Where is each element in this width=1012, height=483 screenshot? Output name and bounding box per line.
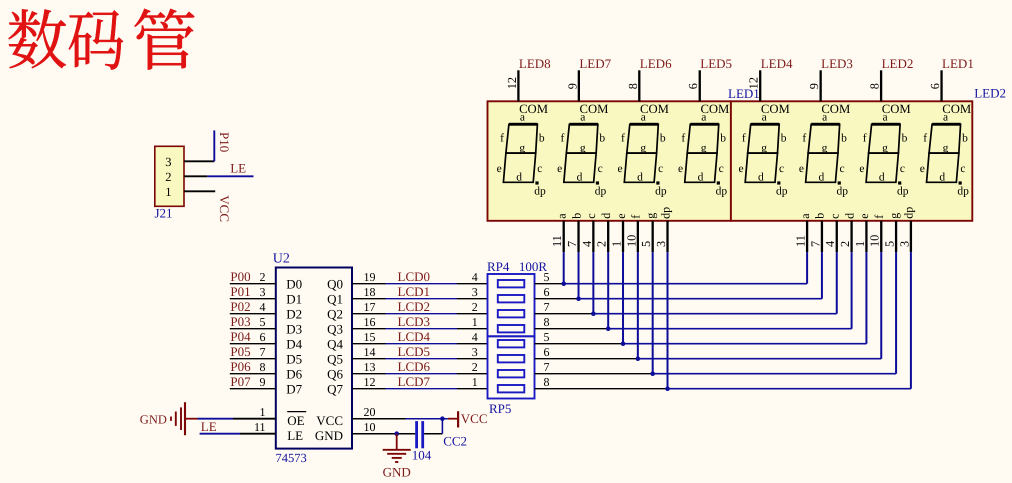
svg-text:Q4: Q4 (327, 337, 343, 352)
svg-text:GND: GND (383, 465, 411, 480)
svg-text:c: c (537, 163, 542, 175)
LED1 segment pin b stub (577, 221, 579, 252)
svg-text:c: c (960, 163, 965, 175)
LED2 segment pin a stub (806, 221, 808, 252)
svg-text:LED7: LED7 (579, 56, 611, 71)
svg-text:D5: D5 (286, 352, 302, 367)
svg-text:dp: dp (655, 186, 667, 198)
svg-text:11: 11 (794, 235, 808, 247)
svg-text:8: 8 (868, 83, 882, 89)
wire LCD5 net (352, 358, 386, 360)
wire P00 input (230, 283, 276, 285)
svg-text:8: 8 (260, 360, 266, 374)
svg-text:20: 20 (364, 405, 376, 419)
svg-text:Q7: Q7 (327, 382, 343, 397)
display digit 3 seven-segment glyph (618, 111, 667, 197)
junction dot row 8 (665, 386, 670, 391)
svg-text:3: 3 (260, 285, 266, 299)
svg-text:8: 8 (544, 315, 550, 329)
display digit 8 COM pin wire (940, 70, 942, 101)
svg-text:12: 12 (747, 77, 761, 89)
svg-text:a: a (641, 111, 646, 123)
wire right display segment 5 vertical (865, 252, 867, 344)
wire segment bus row 6 (535, 358, 638, 360)
resistor element R4 in RP4 (498, 325, 525, 332)
J21 pin 2 wire (184, 175, 207, 177)
svg-text:6: 6 (686, 83, 700, 89)
svg-text:LED8: LED8 (519, 56, 551, 71)
wire P07 input (230, 388, 276, 390)
wire P04 input (230, 343, 276, 345)
junction dot row 3 (591, 311, 596, 316)
svg-text:g: g (882, 143, 888, 155)
svg-text:LED5: LED5 (700, 56, 732, 71)
display digit 2 COM pin wire (578, 70, 580, 101)
VCC power symbol (448, 418, 457, 420)
junction dot GND node (394, 431, 399, 436)
svg-text:d: d (516, 172, 522, 184)
junction dot VCC node (440, 416, 445, 421)
svg-text:7: 7 (544, 360, 550, 374)
resistor element R2 in RP4 (498, 295, 525, 302)
svg-text:a: a (883, 111, 888, 123)
J21 pin 1 wire (184, 190, 215, 192)
svg-text:c: c (828, 213, 842, 218)
svg-text:a: a (520, 111, 525, 123)
wire right display segment 7 vertical (895, 252, 897, 374)
svg-text:c: c (719, 163, 724, 175)
LED1 segment pin d stub (607, 221, 609, 252)
svg-text:12: 12 (364, 375, 376, 389)
svg-text:GND: GND (140, 412, 167, 426)
svg-text:Q5: Q5 (327, 352, 343, 367)
svg-text:f: f (802, 132, 806, 144)
earth ground symbol below capacitor (396, 434, 398, 450)
svg-text:LED2: LED2 (882, 56, 914, 71)
wire segment bus row 4 (535, 328, 609, 330)
display digit 8 seven-segment glyph (920, 111, 969, 197)
svg-text:LE: LE (287, 428, 303, 443)
svg-text:e: e (557, 163, 562, 175)
junction dot row 2 (576, 296, 581, 301)
svg-text:b: b (720, 132, 726, 144)
svg-text:Q0: Q0 (327, 277, 343, 292)
wire U2 pin 20 to VCC (352, 418, 406, 420)
svg-text:dp: dp (897, 186, 909, 198)
svg-text:b: b (902, 132, 908, 144)
LED2 segment pin e stub (865, 221, 867, 252)
svg-text:Q2: Q2 (327, 307, 343, 322)
wire left display segment 6 vertical (637, 252, 639, 359)
wire left display segment 3 vertical (592, 252, 594, 314)
svg-text:6: 6 (260, 330, 266, 344)
svg-text:d: d (599, 213, 613, 219)
svg-text:U2: U2 (273, 252, 290, 267)
svg-text:P02: P02 (230, 299, 250, 314)
svg-text:P06: P06 (230, 359, 251, 374)
svg-text:Q3: Q3 (327, 322, 343, 337)
latch U2 body (276, 268, 352, 449)
svg-text:f: f (863, 132, 867, 144)
svg-text:b: b (841, 132, 847, 144)
wire right display segment 1 vertical (806, 252, 808, 284)
svg-text:5: 5 (544, 270, 550, 284)
resistor element R3 in RP4 (498, 310, 525, 317)
svg-text:2: 2 (472, 360, 478, 374)
display digit 1 seven-segment glyph (497, 111, 546, 197)
svg-text:LED1: LED1 (942, 56, 974, 71)
wire LE from J21 (207, 175, 253, 177)
display digit 6 seven-segment glyph (799, 111, 848, 197)
svg-text:7: 7 (260, 345, 266, 359)
LED2 segment pin g stub (895, 221, 897, 252)
svg-text:e: e (678, 163, 683, 175)
svg-text:2: 2 (165, 170, 171, 184)
svg-text:D0: D0 (286, 277, 302, 292)
svg-text:4: 4 (472, 270, 478, 284)
svg-text:OE: OE (287, 413, 304, 428)
svg-text:P05: P05 (230, 344, 250, 359)
svg-text:b: b (539, 132, 545, 144)
junction dot row 7 (650, 371, 655, 376)
svg-text:3: 3 (654, 241, 668, 247)
wire right display segment 8 vertical (910, 252, 912, 389)
svg-text:12: 12 (505, 77, 519, 89)
svg-text:g: g (701, 143, 707, 155)
svg-text:b: b (599, 132, 605, 144)
display digit 7 COM pin wire (880, 70, 882, 101)
svg-text:d: d (758, 172, 764, 184)
svg-text:7: 7 (808, 241, 822, 247)
svg-text:9: 9 (260, 375, 266, 389)
svg-text:7: 7 (565, 241, 579, 247)
J21 pin 3 wire (184, 160, 214, 162)
svg-text:1: 1 (260, 405, 266, 419)
svg-text:LE: LE (230, 160, 246, 175)
svg-text:7: 7 (544, 300, 550, 314)
svg-text:6: 6 (928, 83, 942, 89)
junction dot row 6 (636, 356, 641, 361)
svg-text:D3: D3 (286, 322, 302, 337)
svg-text:e: e (859, 163, 864, 175)
wire capacitor to VCC node (424, 433, 442, 435)
svg-text:f: f (561, 132, 565, 144)
wire GND to U2 pin 1 (186, 418, 198, 420)
svg-text:D2: D2 (286, 307, 302, 322)
svg-text:6: 6 (544, 285, 550, 299)
svg-text:P01: P01 (230, 284, 250, 299)
svg-text:d: d (939, 172, 945, 184)
svg-text:c: c (839, 163, 844, 175)
svg-text:dp: dp (658, 207, 672, 219)
LED2 segment pin c stub (836, 221, 838, 252)
wire LCD4 net (352, 343, 386, 345)
wire right display segment 4 vertical (851, 252, 853, 329)
svg-text:c: c (900, 163, 905, 175)
wire LCD1 net (352, 298, 386, 300)
svg-text:a: a (798, 213, 812, 219)
svg-text:f: f (742, 132, 746, 144)
svg-text:6: 6 (544, 345, 550, 359)
svg-text:d: d (577, 172, 583, 184)
svg-text:e: e (614, 213, 628, 218)
svg-text:Q1: Q1 (327, 292, 343, 307)
svg-text:f: f (872, 215, 886, 219)
svg-text:g: g (580, 143, 586, 155)
svg-text:c: c (598, 163, 603, 175)
wire right display segment 6 vertical (880, 252, 882, 359)
svg-text:dp: dp (902, 207, 916, 219)
LED1 segment pin c stub (592, 221, 594, 252)
svg-text:VCC: VCC (316, 413, 343, 428)
LED1 segment pin dp stub (666, 221, 668, 252)
svg-text:f: f (681, 132, 685, 144)
title text 数码管 (9, 9, 195, 70)
LED1 segment pin g stub (652, 221, 654, 252)
wire LCD6 net (352, 373, 386, 375)
wire P05 input (230, 358, 276, 360)
svg-text:1: 1 (472, 375, 478, 389)
svg-text:e: e (738, 163, 743, 175)
svg-text:c: c (658, 163, 663, 175)
svg-text:f: f (500, 132, 504, 144)
svg-text:LE: LE (201, 419, 217, 434)
svg-text:LED3: LED3 (821, 56, 853, 71)
display module LED2 body (731, 101, 972, 221)
svg-text:b: b (962, 132, 968, 144)
resistor element R1 in RP4 (498, 280, 525, 287)
display module LED1 body (488, 101, 731, 221)
wire segment bus row 3 (535, 313, 594, 315)
wire segment bus row 8 (535, 388, 668, 390)
connector J21 body (155, 146, 184, 206)
svg-text:a: a (701, 111, 706, 123)
svg-text:g: g (643, 213, 657, 219)
wire left display segment 1 vertical (563, 252, 565, 284)
svg-text:5: 5 (260, 315, 266, 329)
svg-text:d: d (842, 213, 856, 219)
svg-text:10: 10 (364, 420, 376, 434)
svg-text:104: 104 (412, 447, 432, 462)
svg-text:D6: D6 (286, 367, 302, 382)
svg-text:74573: 74573 (276, 451, 307, 465)
svg-text:P00: P00 (230, 269, 250, 284)
svg-text:dp: dp (534, 186, 546, 198)
display digit 4 COM pin wire (699, 70, 701, 101)
svg-text:3: 3 (472, 285, 478, 299)
wire P02 input (230, 313, 276, 315)
LED2 segment pin dp stub (910, 221, 912, 252)
svg-text:LCD0: LCD0 (398, 269, 431, 284)
svg-text:RP5: RP5 (489, 401, 511, 416)
svg-text:D1: D1 (286, 292, 302, 307)
svg-text:1: 1 (853, 241, 867, 247)
svg-text:1: 1 (472, 315, 478, 329)
display digit 5 COM pin wire (759, 70, 761, 101)
svg-text:b: b (660, 132, 666, 144)
svg-text:f: f (629, 215, 643, 219)
svg-text:e: e (497, 163, 502, 175)
wire segment bus row 7 (535, 373, 653, 375)
svg-text:Q6: Q6 (327, 367, 343, 382)
svg-text:a: a (943, 111, 948, 123)
svg-text:1: 1 (609, 241, 623, 247)
wire left display segment 4 vertical (607, 252, 609, 329)
wire right display segment 2 vertical (821, 252, 823, 299)
svg-text:2: 2 (595, 241, 609, 247)
svg-text:P10: P10 (217, 132, 232, 152)
svg-text:e: e (799, 163, 804, 175)
svg-text:17: 17 (364, 300, 376, 314)
svg-text:P03: P03 (230, 314, 250, 329)
resistor pack RP4 body (488, 274, 535, 336)
svg-text:10: 10 (868, 235, 882, 247)
svg-text:g: g (943, 143, 949, 155)
resistor element R8 in RP5 (498, 385, 525, 392)
svg-text:dp: dp (716, 186, 728, 198)
svg-text:VCC: VCC (461, 411, 488, 426)
svg-text:g: g (761, 143, 767, 155)
power ground symbol at U2 pin 1 (170, 417, 172, 421)
svg-text:1: 1 (165, 185, 171, 199)
wire P06 input (230, 373, 276, 375)
wire left display segment 8 vertical (667, 252, 669, 389)
svg-text:LED6: LED6 (640, 56, 672, 71)
svg-text:f: f (621, 132, 625, 144)
svg-text:4: 4 (472, 330, 478, 344)
svg-text:11: 11 (550, 235, 564, 247)
svg-text:RP4: RP4 (487, 259, 510, 274)
wire right display segment 3 vertical (836, 252, 838, 314)
wire LCD7 net (352, 388, 386, 390)
svg-text:a: a (762, 111, 767, 123)
svg-text:d: d (818, 172, 824, 184)
wire LE to U2 pin 11 (200, 433, 240, 435)
svg-text:f: f (923, 132, 927, 144)
svg-text:LCD1: LCD1 (398, 284, 431, 299)
svg-text:e: e (857, 213, 871, 218)
svg-text:c: c (779, 163, 784, 175)
svg-text:13: 13 (364, 360, 376, 374)
resistor element R6 in RP5 (498, 355, 525, 362)
svg-text:d: d (698, 172, 704, 184)
svg-text:LCD4: LCD4 (398, 329, 431, 344)
svg-text:LCD2: LCD2 (398, 299, 431, 314)
LED1 segment pin a stub (563, 221, 565, 252)
junction dot row 1 (561, 281, 566, 286)
svg-text:LED2: LED2 (974, 86, 1006, 101)
svg-text:3: 3 (472, 345, 478, 359)
wire segment bus row 5 (535, 343, 624, 345)
svg-text:3: 3 (897, 241, 911, 247)
svg-text:CC2: CC2 (443, 434, 467, 449)
svg-text:P07: P07 (230, 374, 251, 389)
svg-text:11: 11 (254, 420, 266, 434)
wire left display segment 2 vertical (578, 252, 580, 299)
svg-text:5: 5 (544, 330, 550, 344)
display digit 3 COM pin wire (638, 70, 640, 101)
wire U2 pin 10 to capacitor (352, 433, 415, 435)
svg-text:g: g (640, 143, 646, 155)
svg-text:D4: D4 (286, 337, 302, 352)
svg-text:GND: GND (315, 428, 343, 443)
svg-text:b: b (813, 213, 827, 219)
svg-text:9: 9 (565, 83, 579, 89)
wire left display segment 5 vertical (622, 252, 624, 344)
svg-text:c: c (584, 213, 598, 218)
display digit 6 COM pin wire (820, 70, 822, 101)
svg-text:LCD3: LCD3 (398, 314, 431, 329)
svg-text:g: g (519, 143, 525, 155)
svg-text:14: 14 (364, 345, 376, 359)
svg-text:5: 5 (882, 241, 896, 247)
capacitor CC2 plates (415, 421, 418, 448)
svg-text:9: 9 (807, 83, 821, 89)
svg-text:b: b (569, 213, 583, 219)
svg-text:d: d (637, 172, 643, 184)
svg-text:2: 2 (260, 270, 266, 284)
svg-text:19: 19 (364, 270, 376, 284)
LED2 segment pin b stub (821, 221, 823, 252)
LED1 segment pin e stub (622, 221, 624, 252)
svg-text:J21: J21 (155, 206, 173, 221)
wire LCD2 net (352, 313, 386, 315)
svg-text:5: 5 (639, 241, 653, 247)
display digit 1 COM pin wire (517, 70, 519, 101)
LED1 segment pin f stub (637, 221, 639, 252)
wire P01 input (230, 298, 276, 300)
svg-text:e: e (920, 163, 925, 175)
resistor element R7 in RP5 (498, 370, 525, 377)
svg-text:LCD6: LCD6 (398, 359, 431, 374)
svg-text:LED4: LED4 (761, 56, 793, 71)
svg-text:D7: D7 (286, 382, 302, 397)
svg-text:18: 18 (364, 285, 376, 299)
svg-text:b: b (781, 132, 787, 144)
wire LCD3 net (352, 328, 386, 330)
LED2 segment pin d stub (850, 221, 852, 252)
junction dot row 5 (621, 341, 626, 346)
wire left display segment 7 vertical (652, 252, 654, 374)
svg-text:P04: P04 (230, 329, 251, 344)
wire P10 vertical (213, 130, 215, 161)
display digit 7 seven-segment glyph (859, 111, 908, 197)
svg-text:2: 2 (472, 300, 478, 314)
svg-text:dp: dp (957, 186, 969, 198)
svg-text:4: 4 (260, 300, 266, 314)
svg-text:g: g (887, 213, 901, 219)
LED2 segment pin f stub (880, 221, 882, 252)
wire LCD0 net (352, 283, 386, 285)
svg-text:VCC: VCC (217, 195, 232, 222)
svg-text:e: e (618, 163, 623, 175)
svg-text:4: 4 (823, 241, 837, 247)
resistor element R5 in RP5 (498, 340, 525, 347)
svg-text:a: a (822, 111, 827, 123)
wire segment bus row 2 (535, 298, 579, 300)
svg-text:dp: dp (776, 186, 788, 198)
svg-text:g: g (822, 143, 828, 155)
svg-text:LCD5: LCD5 (398, 344, 431, 359)
display digit 5 seven-segment glyph (738, 111, 787, 197)
svg-text:15: 15 (364, 330, 376, 344)
svg-text:16: 16 (364, 315, 376, 329)
svg-text:4: 4 (580, 241, 594, 247)
junction dot row 4 (606, 326, 611, 331)
svg-text:8: 8 (544, 375, 550, 389)
svg-text:dp: dp (837, 186, 849, 198)
wire P03 input (230, 328, 276, 330)
